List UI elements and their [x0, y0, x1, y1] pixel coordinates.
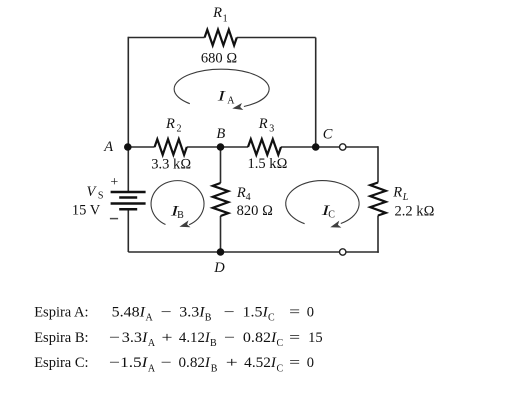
label R4	[236, 185, 251, 203]
label IA	[216, 88, 235, 106]
wire right vertical of top loop	[315, 38, 317, 148]
wire top-left horizontal	[128, 37, 204, 39]
wire bottom-right corner to bottom terminal	[346, 251, 379, 253]
svg-text:=: =	[289, 355, 300, 371]
svg-text:4: 4	[246, 192, 251, 203]
node C	[312, 143, 320, 151]
svg-text:5.48I: 5.48I	[112, 304, 147, 320]
svg-text:−: −	[109, 355, 120, 371]
wire node B to R3	[221, 146, 249, 148]
equation Espira B	[34, 330, 322, 349]
wire top terminal to right corner	[346, 146, 378, 148]
equation Espira A	[34, 304, 314, 323]
svg-text:I: I	[216, 88, 226, 104]
svg-text:1: 1	[223, 13, 228, 24]
svg-text:+: +	[226, 355, 238, 371]
svg-text:D: D	[213, 260, 225, 276]
svg-text:0.82I: 0.82I	[243, 330, 278, 346]
svg-text:+: +	[162, 330, 173, 346]
svg-text:Espira B:: Espira B:	[34, 330, 88, 346]
svg-text:0: 0	[307, 355, 314, 371]
svg-text:4.52I: 4.52I	[244, 355, 277, 371]
svg-text:B: B	[210, 338, 217, 349]
svg-text:+: +	[110, 175, 118, 190]
wire node B down to R4	[220, 147, 222, 183]
wire top-right horizontal	[237, 37, 316, 39]
svg-text:A: A	[227, 96, 235, 107]
label R2	[165, 116, 182, 134]
terminal circle bottom	[340, 249, 346, 255]
wire R2 to node B	[187, 146, 221, 148]
svg-text:−: −	[224, 330, 235, 346]
wire node C to top terminal	[316, 146, 340, 148]
wire left vertical lower	[127, 209, 129, 252]
resistor RL zigzag	[370, 183, 386, 216]
svg-text:C: C	[328, 209, 335, 220]
svg-text:C: C	[268, 313, 275, 324]
loop arrow IB	[151, 181, 204, 225]
svg-text:R: R	[212, 5, 222, 21]
svg-text:1.5I: 1.5I	[120, 355, 149, 371]
label IB	[169, 204, 184, 221]
svg-text:−: −	[224, 304, 235, 320]
svg-text:B: B	[216, 126, 225, 142]
svg-text:Espira C:: Espira C:	[34, 355, 88, 371]
svg-text:Espira A:: Espira A:	[34, 304, 88, 320]
svg-text:A: A	[148, 363, 156, 374]
svg-text:−: −	[109, 330, 120, 346]
loop arrow IC	[286, 181, 359, 224]
node D	[217, 248, 225, 256]
svg-text:C: C	[323, 126, 333, 142]
label IC	[320, 203, 335, 221]
svg-text:3: 3	[269, 124, 274, 135]
label R1	[212, 5, 228, 24]
wire right vertical above RL	[377, 146, 379, 182]
svg-text:2: 2	[177, 124, 182, 135]
svg-text:=: =	[289, 330, 300, 346]
svg-text:S: S	[98, 191, 104, 202]
svg-text:3.3I: 3.3I	[122, 330, 149, 346]
loop arrow IA	[174, 69, 269, 106]
svg-text:15: 15	[308, 330, 323, 346]
svg-text:3.3 kΩ: 3.3 kΩ	[151, 156, 191, 172]
svg-text:R: R	[392, 185, 402, 201]
svg-text:1.5I: 1.5I	[243, 304, 270, 320]
wire R4 down to node D	[220, 216, 222, 252]
battery VS plates	[111, 192, 146, 209]
svg-text:1.5 kΩ: 1.5 kΩ	[248, 156, 288, 172]
node A	[124, 143, 132, 151]
svg-text:A: A	[148, 338, 156, 349]
wire right vertical below RL	[377, 216, 379, 253]
svg-text:V: V	[87, 184, 98, 200]
label R3	[258, 116, 275, 134]
svg-text:0: 0	[307, 304, 314, 320]
svg-text:3.3I: 3.3I	[179, 304, 206, 320]
resistor R3 zigzag	[248, 139, 281, 155]
svg-text:C: C	[277, 363, 284, 374]
svg-text:2.2 kΩ: 2.2 kΩ	[395, 203, 435, 219]
svg-text:4.12I: 4.12I	[179, 330, 211, 346]
svg-text:R: R	[165, 116, 175, 132]
svg-text:B: B	[211, 363, 218, 374]
svg-text:=: =	[289, 304, 300, 320]
equation Espira C	[34, 355, 314, 374]
label RL	[392, 185, 408, 203]
svg-text:A: A	[103, 139, 113, 155]
svg-text:−: −	[161, 355, 172, 371]
svg-text:A: A	[146, 313, 154, 324]
svg-text:680 Ω: 680 Ω	[201, 51, 238, 67]
svg-text:B: B	[177, 210, 184, 221]
battery minus sign	[110, 218, 118, 220]
svg-text:B: B	[205, 313, 212, 324]
wire bottom main run	[128, 251, 339, 253]
wire node A to R2	[128, 146, 154, 148]
terminal circle top	[340, 144, 346, 150]
svg-text:R: R	[236, 185, 246, 201]
wire R3 to node C	[281, 146, 316, 148]
label VS	[87, 184, 104, 202]
wire left vertical upper	[127, 37, 129, 192]
svg-text:820 Ω: 820 Ω	[237, 203, 274, 219]
resistor R4 zigzag	[213, 183, 229, 216]
svg-text:0.82I: 0.82I	[179, 355, 212, 371]
resistor R2 zigzag	[155, 139, 187, 155]
svg-text:R: R	[258, 116, 268, 132]
svg-text:−: −	[161, 304, 172, 320]
svg-text:15 V: 15 V	[72, 203, 101, 219]
svg-text:L: L	[402, 192, 409, 203]
svg-text:C: C	[277, 338, 284, 349]
resistor R1 zigzag	[205, 30, 237, 46]
node B	[217, 143, 225, 151]
